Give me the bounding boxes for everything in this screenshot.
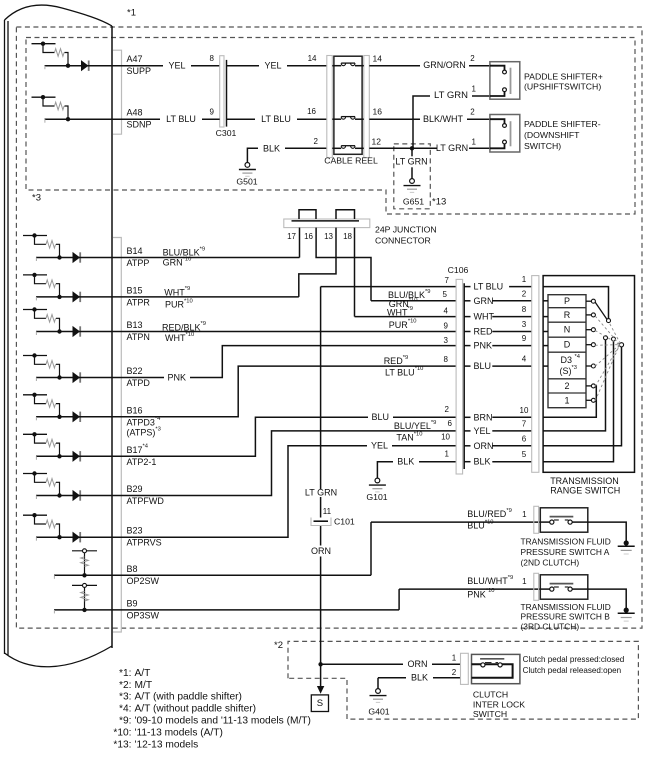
svg-text:2: 2 bbox=[452, 668, 457, 677]
svg-text:G401: G401 bbox=[368, 707, 389, 717]
svg-text:7: 7 bbox=[445, 276, 450, 285]
svg-text:S: S bbox=[317, 698, 323, 709]
ground G401 bbox=[368, 689, 389, 717]
svg-text:*13:: *13: bbox=[113, 739, 131, 750]
wire ECM pin A47 row bbox=[45, 63, 113, 69]
svg-text:C301: C301 bbox=[216, 128, 237, 138]
wire pressure switch A feed riser bbox=[370, 522, 372, 575]
wire row C106 pin 7 LT BLU bbox=[321, 276, 457, 287]
svg-text:*3: *3 bbox=[32, 193, 41, 204]
wire LT GRN/ORN main vertical (M/T clutch line) bbox=[320, 287, 322, 665]
svg-text:12: 12 bbox=[372, 137, 382, 147]
svg-text:11: 11 bbox=[323, 507, 332, 516]
svg-text:C101: C101 bbox=[334, 517, 355, 527]
wire row C106 pin 6 BLU/YEL-TAN (B29/ATPFWD net) bbox=[112, 419, 456, 495]
svg-text:1: 1 bbox=[522, 275, 527, 284]
svg-text:LT BLU: LT BLU bbox=[474, 282, 504, 292]
dashed box *1 A/T bbox=[16, 8, 642, 629]
wire ORN to clutch interlock pin 1 bbox=[321, 654, 461, 670]
wire YEL C301 to cable reel bbox=[227, 54, 327, 71]
svg-text:PNK: PNK bbox=[167, 372, 186, 382]
wire ECM pin A48 row bbox=[45, 117, 113, 123]
svg-text:A48: A48 bbox=[127, 108, 143, 118]
svg-text:6: 6 bbox=[448, 419, 453, 428]
svg-text:2: 2 bbox=[470, 108, 475, 117]
wire BLK/WHT to paddle shifter- pin 2 bbox=[369, 108, 490, 125]
svg-text:1: 1 bbox=[522, 510, 527, 519]
wire row C106 pin 8 RED-LT BLU (B16 net) bbox=[112, 355, 456, 417]
cable reel terminal pair (row y=65.7) bbox=[332, 63, 364, 66]
diode (B15 row) bbox=[73, 291, 81, 302]
svg-text:R: R bbox=[564, 310, 571, 320]
node junction pin 18 bbox=[343, 228, 354, 317]
ground G501 bbox=[236, 163, 257, 187]
svg-text:B8: B8 bbox=[127, 564, 138, 574]
wire ECM pin B14 row bbox=[36, 255, 112, 261]
wire row C106 pin 5 BLU/BLK-GRN bbox=[371, 289, 456, 309]
switch transmission fluid pressure B (3rd clutch) bbox=[399, 573, 611, 631]
wire row C106 pin 2 BLU (B17/ATP2-1 net) bbox=[112, 405, 456, 457]
node ECM pin B9 label bbox=[127, 598, 160, 620]
node ECM pin B13 label bbox=[127, 320, 150, 342]
svg-text:10: 10 bbox=[441, 433, 450, 442]
svg-text:SWITCH: SWITCH bbox=[473, 709, 507, 719]
range switch position cells P R N D D3(S) 2 1 bbox=[548, 295, 586, 408]
ECM/PCM body (torn-edge band) bbox=[5, 5, 113, 667]
svg-text:ATPRVS: ATPRVS bbox=[127, 538, 162, 548]
ECM internal pull-up resistor (B14 row) bbox=[23, 233, 60, 257]
svg-text:BLU/WHT*9: BLU/WHT*9 bbox=[467, 575, 513, 586]
ECM internal pull-up (B8 row) bbox=[72, 549, 97, 576]
svg-text:ORN: ORN bbox=[474, 441, 494, 451]
wire WHT into R cell bbox=[543, 316, 548, 318]
svg-text:BRN: BRN bbox=[474, 412, 493, 422]
svg-text:2: 2 bbox=[314, 137, 319, 146]
svg-text:A/T (with paddle shifter): A/T (with paddle shifter) bbox=[135, 692, 242, 703]
svg-text:*4:: *4: bbox=[119, 704, 131, 715]
svg-text:1: 1 bbox=[452, 654, 457, 663]
node ECM pin B14 label bbox=[127, 246, 150, 268]
svg-text:B23: B23 bbox=[127, 526, 143, 536]
ECM internal pull-up resistor (B16 row) bbox=[23, 393, 60, 417]
svg-text:'11-13 models (A/T): '11-13 models (A/T) bbox=[135, 727, 223, 738]
svg-text:2: 2 bbox=[522, 289, 527, 298]
wire B14 ATPP row to junction pin 17 bbox=[112, 246, 300, 267]
svg-text:'09-10 models and '11-13 model: '09-10 models and '11-13 models (M/T) bbox=[135, 716, 311, 727]
svg-text:10: 10 bbox=[520, 406, 529, 415]
svg-text:RED: RED bbox=[474, 327, 494, 337]
svg-text:2: 2 bbox=[564, 381, 569, 391]
svg-text:D: D bbox=[564, 340, 571, 350]
wire A47 YEL to C301 bbox=[112, 60, 220, 71]
wire row C106 pin 1 BLK to G101 bbox=[377, 450, 456, 479]
svg-text:YEL: YEL bbox=[371, 441, 388, 451]
node junction pin 17 bbox=[287, 228, 299, 258]
connector C101 bbox=[305, 488, 355, 557]
node ECM pin A48 label bbox=[127, 108, 152, 130]
diode (B16 row) bbox=[73, 411, 81, 422]
svg-text:2: 2 bbox=[445, 405, 450, 414]
switch paddle shifter- (downshift) bbox=[490, 115, 601, 153]
svg-text:B22: B22 bbox=[127, 366, 143, 376]
svg-text:(3RD CLUTCH): (3RD CLUTCH) bbox=[521, 621, 580, 631]
svg-text:16: 16 bbox=[307, 107, 316, 116]
svg-text:SUPP: SUPP bbox=[127, 66, 152, 76]
svg-text:PADDLE SHIFTER-: PADDLE SHIFTER- bbox=[524, 119, 601, 129]
node ECM pin B29 label bbox=[127, 484, 165, 506]
ECM internal pull-up resistor (B15 row) bbox=[23, 273, 60, 297]
svg-text:1: 1 bbox=[471, 85, 476, 94]
svg-text:4: 4 bbox=[444, 306, 449, 315]
svg-text:ATP2-1: ATP2-1 bbox=[127, 457, 157, 467]
wire C106 right row GRN (pin 2) bbox=[464, 289, 532, 306]
ECM internal pull-up resistor (B29 row) bbox=[23, 471, 60, 495]
wire ECM pin B23 row bbox=[36, 535, 112, 541]
svg-text:*10:: *10: bbox=[113, 727, 131, 738]
wire BLK clutch interlock pin 2 to G401 bbox=[378, 668, 461, 689]
cable reel terminal pair (row y=148.3) bbox=[332, 146, 364, 149]
ECM internal pull-up resistor (B22 row) bbox=[23, 353, 60, 377]
footnotes bbox=[113, 668, 311, 750]
node ECM pin B22 label bbox=[127, 366, 151, 388]
svg-text:BLK: BLK bbox=[263, 143, 280, 153]
svg-text:TRANSMISSION FLUID: TRANSMISSION FLUID bbox=[521, 602, 611, 612]
wire ECM pin B9 row bbox=[54, 608, 112, 614]
svg-text:BLK: BLK bbox=[397, 457, 414, 467]
svg-text:BLK/WHT: BLK/WHT bbox=[423, 114, 464, 124]
wire LT GRN cable reel pin 12 to paddle shifter- pin 1 bbox=[369, 138, 490, 154]
wire C106 right row LT BLU (pin 1) bbox=[464, 275, 532, 292]
svg-text:TRANSMISSION: TRANSMISSION bbox=[550, 476, 619, 486]
dashed box *13 G651 bbox=[394, 144, 446, 209]
svg-text:RANGE SWITCH: RANGE SWITCH bbox=[550, 486, 620, 496]
svg-text:P: P bbox=[564, 296, 570, 306]
svg-text:*3:: *3: bbox=[119, 692, 131, 703]
svg-text:(2ND CLUTCH): (2ND CLUTCH) bbox=[521, 557, 580, 567]
svg-text:9: 9 bbox=[444, 321, 449, 330]
svg-text:C106: C106 bbox=[448, 265, 469, 275]
wire row C106 pin 4 WHT-PUR (from junction 18) bbox=[355, 306, 457, 330]
svg-text:1: 1 bbox=[522, 577, 527, 586]
svg-text:PNK: PNK bbox=[474, 341, 493, 351]
diode (B22 row) bbox=[73, 372, 81, 383]
svg-text:13: 13 bbox=[324, 232, 333, 241]
svg-text:*9:: *9: bbox=[119, 716, 131, 727]
wire C106 right row PNK (pin 9) bbox=[464, 334, 532, 351]
svg-text:*13: *13 bbox=[432, 197, 446, 208]
svg-text:SDNP: SDNP bbox=[127, 120, 152, 130]
svg-text:INTER LOCK: INTER LOCK bbox=[473, 699, 525, 709]
svg-text:N: N bbox=[564, 325, 571, 335]
wire A48 LT BLU to C301 bbox=[112, 114, 220, 125]
wire C106 right row ORN (pin 6) bbox=[464, 434, 532, 451]
switch arm (P position, solid) bbox=[595, 302, 607, 319]
svg-text:G101: G101 bbox=[366, 492, 387, 502]
wire LT GRN to paddle shifter+ pin 1 bbox=[413, 85, 490, 149]
wire BLK to pole 3 bbox=[543, 337, 615, 462]
svg-text:YEL: YEL bbox=[168, 61, 185, 71]
wire C106 right row BLU (pin 4) bbox=[464, 355, 532, 372]
ECM internal pull-up resistor (B17 row) bbox=[23, 432, 60, 456]
svg-text:OP3SW: OP3SW bbox=[127, 610, 160, 620]
wire ECM pin B16 row bbox=[36, 415, 112, 421]
svg-text:2: 2 bbox=[470, 54, 475, 63]
cable reel terminal pair (row y=119.2) bbox=[332, 117, 364, 120]
node ECM pin A47 label bbox=[127, 54, 152, 76]
switch transmission fluid pressure A (2nd clutch) bbox=[371, 506, 611, 567]
24P junction connector bbox=[284, 210, 437, 246]
svg-text:LT GRN: LT GRN bbox=[434, 90, 468, 101]
node junction pin 13 bbox=[299, 228, 336, 297]
svg-text:A/T: A/T bbox=[135, 668, 151, 679]
cable reel bbox=[324, 56, 378, 166]
ECM internal pull-up resistor (B23 row) bbox=[23, 513, 60, 537]
svg-text:LT BLU: LT BLU bbox=[166, 114, 196, 124]
svg-text:OP2SW: OP2SW bbox=[127, 576, 160, 586]
svg-text:14: 14 bbox=[308, 54, 317, 63]
svg-text:1: 1 bbox=[445, 450, 450, 459]
svg-text:ATPP: ATPP bbox=[127, 258, 150, 268]
node ECM pin B17 label bbox=[127, 444, 157, 467]
diode (B17 row) bbox=[73, 451, 81, 462]
diode (B14 row) bbox=[73, 252, 81, 263]
svg-text:WHT: WHT bbox=[474, 312, 495, 322]
switch clutch interlock bbox=[461, 653, 625, 719]
svg-text:BLU: BLU bbox=[372, 412, 390, 422]
wire row C106 pin 3 PNK (B22/ATPD net) bbox=[112, 336, 456, 383]
wire C106 right row WHT (pin 8) bbox=[464, 305, 532, 322]
svg-text:(UPSHIFTSWITCH): (UPSHIFTSWITCH) bbox=[524, 81, 601, 91]
svg-text:LT GRN: LT GRN bbox=[395, 157, 427, 167]
svg-text:RED/BLK*9: RED/BLK*9 bbox=[162, 321, 206, 332]
wire pressure switch B to ground bbox=[588, 589, 635, 621]
svg-text:5: 5 bbox=[522, 450, 527, 459]
svg-text:CABLE REEL: CABLE REEL bbox=[324, 156, 378, 166]
svg-text:3: 3 bbox=[444, 336, 449, 345]
svg-text:BLU/YEL*9: BLU/YEL*9 bbox=[394, 420, 437, 431]
svg-text:'12-13 models: '12-13 models bbox=[135, 739, 199, 750]
node ECM pin B15 label bbox=[127, 285, 151, 307]
wire ECM pin B29 row bbox=[36, 493, 112, 499]
svg-text:BLU: BLU bbox=[474, 361, 492, 371]
diode (B13 row) bbox=[73, 326, 81, 337]
svg-text:24P JUNCTION: 24P JUNCTION bbox=[375, 225, 437, 235]
node ECM pin B23 label bbox=[127, 526, 162, 548]
svg-text:B15: B15 bbox=[127, 285, 143, 295]
ground G651 bbox=[403, 179, 424, 207]
svg-text:LT GRN: LT GRN bbox=[305, 488, 337, 498]
svg-text:CLUTCH: CLUTCH bbox=[473, 689, 508, 699]
wire LT GRN drop to G651 bbox=[395, 148, 428, 178]
connector C106 bbox=[448, 265, 469, 474]
wire ECM pin B17 row bbox=[36, 454, 112, 460]
wire pressure switch A to ground bbox=[588, 522, 635, 554]
svg-text:ATPR: ATPR bbox=[127, 297, 151, 307]
wire row C106 pin 10 YEL (B23/ATPRVS net) bbox=[112, 433, 456, 538]
svg-text:GRN: GRN bbox=[474, 296, 494, 306]
wire LT BLU C301 to cable reel bbox=[227, 107, 327, 125]
svg-text:BLU/RED*9: BLU/RED*9 bbox=[467, 508, 512, 519]
node junction pin 16 bbox=[304, 228, 371, 301]
wire ECM pin B15 row bbox=[36, 295, 112, 301]
svg-text:G651: G651 bbox=[403, 197, 424, 207]
svg-text:CONNECTOR: CONNECTOR bbox=[375, 236, 431, 246]
ECM internal pull-up resistor (A47 row) bbox=[32, 42, 69, 66]
svg-text:LT BLU: LT BLU bbox=[261, 114, 291, 124]
wire LT BLU to common pole 1 bbox=[543, 287, 610, 323]
wire RED into N cell bbox=[543, 331, 548, 333]
wire ECM pin B8 row bbox=[54, 573, 112, 579]
svg-text:GRN/ORN: GRN/ORN bbox=[423, 60, 466, 70]
svg-text:ATPFWD: ATPFWD bbox=[127, 496, 165, 506]
ECM connector shell bracket (A-group) bbox=[113, 50, 122, 134]
diode (B23 row) bbox=[73, 532, 81, 543]
svg-text:B13: B13 bbox=[127, 320, 143, 330]
svg-text:B9: B9 bbox=[127, 598, 138, 608]
svg-text:BLK: BLK bbox=[411, 672, 428, 682]
switch paddle shifter+ (upshift) bbox=[490, 62, 603, 99]
svg-text:16: 16 bbox=[373, 107, 383, 117]
svg-text:17: 17 bbox=[287, 232, 296, 241]
ECM internal pull-up (B9 row) bbox=[72, 583, 97, 610]
svg-text:*1: *1 bbox=[127, 8, 136, 19]
wire ECM pin B22 row bbox=[36, 375, 112, 381]
svg-text:*1:: *1: bbox=[119, 668, 131, 679]
svg-text:M/T: M/T bbox=[135, 680, 153, 691]
svg-text:4: 4 bbox=[522, 355, 527, 364]
ECM connector shell bracket (B-group) bbox=[113, 238, 121, 633]
wire BRN to 2/1 contacts bbox=[543, 386, 596, 417]
node ECM pin B16 label bbox=[127, 405, 162, 437]
svg-text:8: 8 bbox=[522, 305, 527, 314]
svg-text:ORN: ORN bbox=[408, 659, 428, 669]
connector C301 bbox=[210, 54, 237, 138]
dashed box *2 M/T bbox=[274, 640, 638, 719]
diode (B29 row) bbox=[73, 490, 81, 501]
svg-text:8: 8 bbox=[444, 355, 449, 364]
wire B9 OP3SW row extension bbox=[112, 609, 399, 611]
svg-text:*2:: *2: bbox=[119, 680, 131, 691]
svg-text:A/T (without paddle shifter): A/T (without paddle shifter) bbox=[135, 704, 257, 715]
wire pressure switch B feed riser bbox=[398, 589, 400, 610]
diode (A47 row) bbox=[81, 60, 89, 71]
svg-text:14: 14 bbox=[373, 54, 383, 64]
svg-text:3: 3 bbox=[522, 320, 527, 329]
ground G101 bbox=[366, 478, 387, 502]
svg-text:G501: G501 bbox=[236, 177, 257, 187]
svg-text:9: 9 bbox=[210, 108, 215, 117]
svg-text:9: 9 bbox=[522, 334, 527, 343]
cable reel right pin numbers bbox=[372, 54, 383, 147]
svg-text:LT GRN: LT GRN bbox=[436, 143, 468, 153]
wire B8 OP2SW row extension bbox=[112, 574, 371, 576]
wire C106 right row RED (pin 3) bbox=[464, 320, 532, 337]
wire BLU into D3 cell bbox=[543, 365, 548, 367]
svg-text:B16: B16 bbox=[127, 405, 143, 415]
wire B15 ATPR row to junction pin 13 bbox=[112, 286, 299, 310]
svg-text:PRESSURE SWITCH B: PRESSURE SWITCH B bbox=[521, 612, 611, 622]
wire GRN into P cell bbox=[543, 300, 548, 302]
svg-text:SWITCH): SWITCH) bbox=[524, 141, 561, 151]
svg-text:BLK: BLK bbox=[474, 457, 491, 467]
svg-text:6: 6 bbox=[522, 434, 527, 443]
svg-text:B14: B14 bbox=[127, 246, 143, 256]
wire row C106 pin 9 RED (B13/ATPN net) bbox=[112, 321, 456, 343]
range switch selector dashed fan bbox=[595, 316, 620, 401]
wire to S (continuation) bbox=[317, 664, 324, 693]
wire YEL to common pole 2 bbox=[543, 336, 607, 431]
wire PNK into D cell bbox=[543, 345, 548, 347]
svg-text:A47: A47 bbox=[127, 54, 143, 64]
wire C106 right row YEL (pin 7) bbox=[464, 419, 532, 436]
svg-text:ORN: ORN bbox=[311, 546, 331, 556]
transmission range switch connector shell bbox=[532, 276, 539, 473]
svg-text:PRESSURE SWITCH A: PRESSURE SWITCH A bbox=[521, 547, 610, 557]
svg-text:(DOWNSHIFT: (DOWNSHIFT bbox=[524, 130, 580, 140]
svg-text:16: 16 bbox=[304, 232, 313, 241]
svg-text:TRANSMISSION FLUID: TRANSMISSION FLUID bbox=[521, 537, 611, 547]
svg-text:*2: *2 bbox=[274, 640, 283, 651]
svg-text:ATPD: ATPD bbox=[127, 378, 151, 388]
svg-text:18: 18 bbox=[343, 232, 352, 241]
transmission range switch bbox=[543, 276, 634, 496]
svg-text:ATPN: ATPN bbox=[127, 332, 150, 342]
node S continuation box bbox=[311, 695, 328, 712]
svg-text:YEL: YEL bbox=[474, 426, 491, 436]
svg-text:1: 1 bbox=[471, 138, 476, 147]
dashed box *3 A/T with paddle shifter bbox=[26, 38, 635, 215]
svg-text:5: 5 bbox=[443, 290, 448, 299]
wire ECM pin B13 row bbox=[36, 329, 112, 335]
wire C106 right row BLK (pin 5) bbox=[464, 450, 532, 467]
wire ORN to pivot bbox=[543, 343, 624, 446]
range switch position contacts bbox=[586, 299, 595, 402]
node ORN junction bbox=[318, 662, 322, 666]
ECM internal pull-up resistor (A48 row) bbox=[32, 95, 69, 119]
ECM internal pull-up resistor (B13 row) bbox=[23, 307, 60, 331]
wire GRN/ORN to paddle shifter+ pin 2 bbox=[369, 54, 490, 71]
svg-text:B29: B29 bbox=[127, 484, 143, 494]
svg-text:8: 8 bbox=[210, 54, 215, 63]
svg-text:7: 7 bbox=[522, 419, 527, 428]
svg-text:Clutch pedal pressed:closed: Clutch pedal pressed:closed bbox=[523, 655, 625, 664]
wire BLK to cable reel pin 2 bbox=[247, 137, 326, 163]
svg-text:PADDLE SHIFTER+: PADDLE SHIFTER+ bbox=[524, 72, 603, 82]
wire C106 right row BRN (pin 10) bbox=[464, 406, 532, 423]
node ECM pin B8 label bbox=[127, 564, 160, 586]
svg-text:1: 1 bbox=[564, 395, 569, 405]
svg-text:YEL: YEL bbox=[264, 61, 281, 71]
svg-text:Clutch pedal released:open: Clutch pedal released:open bbox=[523, 666, 622, 675]
